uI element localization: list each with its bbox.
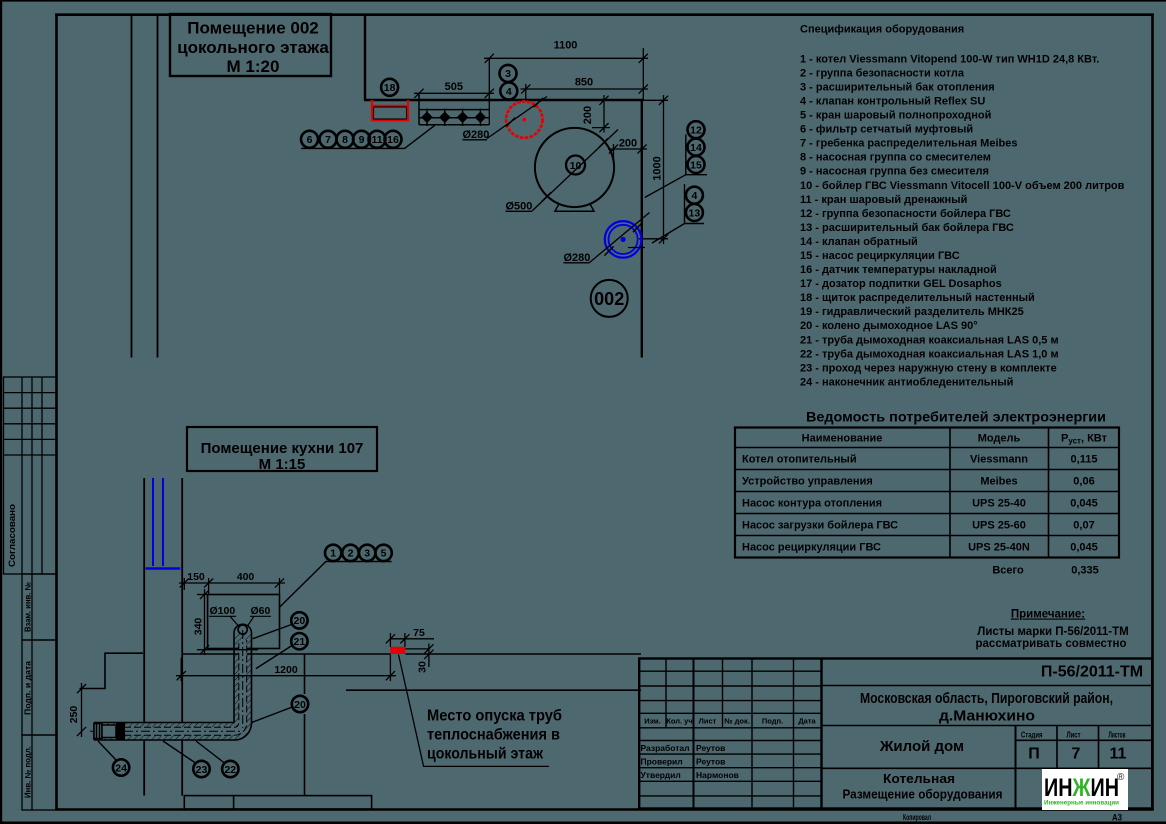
svg-text:П: П bbox=[1028, 746, 1040, 763]
svg-text:9: 9 bbox=[359, 134, 365, 146]
position group 12 14 15 bbox=[645, 121, 707, 197]
svg-text:22 - труба дымоходная коаксиал: 22 - труба дымоходная коаксиальная LAS 1… bbox=[800, 348, 1059, 360]
wall sleeve (poz.23) bbox=[116, 722, 125, 740]
svg-text:21 - труба дымоходная коаксиал: 21 - труба дымоходная коаксиальная LAS 0… bbox=[800, 334, 1059, 346]
svg-text:13 - расширительный бак бойлер: 13 - расширительный бак бойлера ГВС bbox=[800, 222, 1014, 234]
room number 002 bubble bbox=[591, 280, 628, 317]
leader 1235 bbox=[280, 562, 392, 608]
inner pipe clear band bbox=[94, 640, 247, 735]
svg-text:2: 2 bbox=[348, 548, 354, 560]
svg-text:Насос рециркуляции ГВС: Насос рециркуляции ГВС bbox=[742, 542, 881, 554]
svg-text:5: 5 bbox=[381, 548, 387, 560]
dimension 150 and 400 bbox=[179, 578, 285, 595]
sheet top edge bbox=[0, 0, 1166, 2]
svg-text:Наименование: Наименование bbox=[802, 433, 883, 445]
signature rows bbox=[641, 743, 739, 780]
svg-text:11: 11 bbox=[1110, 746, 1127, 763]
svg-text:14: 14 bbox=[690, 142, 702, 154]
svg-text:0,045: 0,045 bbox=[1070, 498, 1098, 510]
consumers table rows bbox=[742, 454, 1098, 554]
svg-text:Котельная: Котельная bbox=[883, 771, 955, 786]
svg-text:Размещение оборудования: Размещение оборудования bbox=[843, 787, 1003, 802]
svg-text:Нармонов: Нармонов bbox=[696, 770, 739, 780]
svg-text:Ø60: Ø60 bbox=[251, 605, 271, 617]
stage values bbox=[1028, 746, 1126, 763]
svg-text:16: 16 bbox=[387, 134, 399, 146]
svg-text:№ док.: № док. bbox=[724, 717, 750, 726]
position circle 21 bbox=[291, 633, 307, 649]
svg-text:0,115: 0,115 bbox=[1071, 454, 1098, 466]
svg-text:23: 23 bbox=[196, 764, 208, 776]
svg-text:Meibes: Meibes bbox=[980, 476, 1017, 488]
svg-text:Инженерные инновации: Инженерные инновации bbox=[1044, 800, 1119, 807]
flue tip (poz.24) bbox=[94, 724, 116, 739]
wall vertical x365 bbox=[364, 14, 366, 101]
svg-text:11 - кран шаровый дренажный: 11 - кран шаровый дренажный bbox=[800, 194, 967, 206]
left margin approval table bbox=[4, 377, 57, 574]
revision header labels bbox=[644, 717, 816, 726]
manifold strip (grebenka) bbox=[419, 93, 489, 125]
svg-text:М 1:20: М 1:20 bbox=[227, 57, 280, 76]
dimension 75 bbox=[386, 633, 434, 647]
kitchen left wall step bbox=[80, 653, 144, 688]
svg-text:Дата: Дата bbox=[798, 717, 816, 726]
flue elbow top (dome) bbox=[234, 624, 252, 634]
svg-text:20: 20 bbox=[294, 615, 306, 627]
svg-text:Устройство управления: Устройство управления bbox=[742, 476, 873, 488]
boiler tank (poz.10) circle bbox=[506, 128, 619, 213]
svg-text:1200: 1200 bbox=[274, 664, 298, 676]
svg-text:Изм.: Изм. bbox=[644, 717, 661, 726]
kitchen chimney wall lines bbox=[144, 478, 182, 796]
partition line x131.5 bbox=[131, 15, 133, 358]
manifold pump dots bbox=[421, 109, 486, 127]
svg-text:UPS 25-60: UPS 25-60 bbox=[972, 520, 1026, 532]
dimension 850 bbox=[521, 84, 649, 100]
svg-text:Котел отопительный: Котел отопительный bbox=[742, 454, 857, 466]
position circle 20 lower bbox=[292, 696, 308, 712]
svg-text:30: 30 bbox=[417, 661, 429, 673]
svg-text:15 - насос рециркуляции ГВС: 15 - насос рециркуляции ГВС bbox=[800, 250, 960, 262]
svg-text:21: 21 bbox=[294, 636, 306, 648]
logo INZHIN bbox=[1042, 769, 1128, 810]
svg-text:850: 850 bbox=[575, 77, 593, 89]
dimension 250 bbox=[77, 683, 86, 737]
wall boiler outline bbox=[208, 595, 280, 649]
sheet name bbox=[843, 771, 1003, 802]
left margin cells bbox=[22, 574, 57, 810]
svg-text:Лист: Лист bbox=[699, 717, 717, 726]
partition line x157.5 bbox=[157, 15, 159, 358]
svg-text:0,045: 0,045 bbox=[1070, 542, 1098, 554]
svg-text:18 - щиток распределительный н: 18 - щиток распределительный настенный bbox=[800, 292, 1035, 304]
svg-text:7 - гребенка распределительная: 7 - гребенка распределительная Meibes bbox=[800, 138, 1017, 150]
svg-text:14 - клапан обратный: 14 - клапан обратный bbox=[800, 236, 918, 248]
svg-text:Листов: Листов bbox=[1109, 730, 1126, 740]
leader 22 bbox=[196, 741, 225, 763]
svg-text:7: 7 bbox=[325, 134, 331, 146]
pipe inner walls dashed bbox=[94, 640, 239, 727]
svg-text:®: ® bbox=[1117, 772, 1125, 783]
svg-text:4: 4 bbox=[506, 86, 512, 98]
leader 24 bbox=[98, 741, 117, 761]
svg-text:цокольный этаж: цокольный этаж bbox=[427, 746, 544, 763]
svg-text:Ø100: Ø100 bbox=[210, 605, 236, 617]
position group 4 13 bbox=[652, 184, 704, 243]
svg-text:цокольного этажа: цокольного этажа bbox=[177, 38, 329, 57]
svg-text:3: 3 bbox=[364, 548, 370, 560]
leader 20 upper bbox=[253, 625, 292, 639]
pipe outer walls bbox=[94, 633, 252, 740]
svg-text:5 - кран шаровый полнопроходно: 5 - кран шаровый полнопроходной bbox=[800, 110, 991, 122]
svg-text:рассматривать совместно: рассматривать совместно bbox=[976, 638, 1127, 650]
svg-text:ИНЖИН: ИНЖИН bbox=[1044, 774, 1119, 802]
position circle 24 bbox=[113, 759, 129, 775]
svg-text:20 - колено дымоходное LAS 90°: 20 - колено дымоходное LAS 90° bbox=[800, 320, 978, 332]
svg-text:Листы марки П-56/2011-ТМ: Листы марки П-56/2011-ТМ bbox=[977, 626, 1128, 638]
svg-text:10 - бойлер ГВС Viessmann Vito: 10 - бойлер ГВС Viessmann Vitocell 100-V… bbox=[800, 180, 1125, 192]
svg-text:Всего: Всего bbox=[992, 565, 1024, 577]
leader 23 bbox=[163, 741, 196, 763]
svg-text:UPS 25-40: UPS 25-40 bbox=[972, 498, 1026, 510]
svg-text:400: 400 bbox=[237, 571, 255, 583]
svg-text:23 - проход через наружную сте: 23 - проход через наружную стену в компл… bbox=[800, 362, 1057, 374]
svg-text:Место опуска труб: Место опуска труб bbox=[427, 708, 562, 725]
svg-text:22: 22 bbox=[224, 764, 236, 776]
svg-text:0,335: 0,335 bbox=[1071, 565, 1099, 577]
consumers table header bbox=[802, 433, 1108, 446]
svg-text:Кол. уч: Кол. уч bbox=[666, 717, 692, 726]
svg-text:Московская область, Пироговски: Московская область, Пироговский район, bbox=[860, 690, 1113, 707]
svg-text:7: 7 bbox=[1072, 746, 1081, 763]
svg-text:200: 200 bbox=[582, 106, 594, 124]
title block right lines bbox=[822, 686, 1153, 809]
svg-text:Viessmann: Viessmann bbox=[970, 454, 1028, 466]
dimension 200 horizontal bbox=[608, 144, 647, 160]
leader 21 bbox=[256, 646, 292, 669]
pipe centerlines bbox=[90, 730, 240, 732]
title block outer bbox=[639, 659, 1152, 809]
svg-text:3: 3 bbox=[505, 68, 511, 80]
DHW expansion vessel (blue circle poz.13) bbox=[564, 213, 650, 265]
totals row bbox=[992, 565, 1098, 577]
svg-text:1100: 1100 bbox=[554, 40, 578, 52]
kitchen title box bbox=[187, 427, 377, 473]
electrical board (poz.18) red rectangle bbox=[371, 100, 409, 120]
svg-text:13: 13 bbox=[689, 207, 701, 219]
wall horizontal y100 bbox=[364, 99, 643, 101]
svg-text:Проверил: Проверил bbox=[641, 757, 683, 767]
svg-text:Помещение кухни 107: Помещение кухни 107 bbox=[201, 440, 364, 457]
svg-text:8 - насосная группа со смесите: 8 - насосная группа со смесителем bbox=[800, 152, 991, 164]
stage headers bbox=[1021, 730, 1126, 740]
dimension 1100 bbox=[484, 48, 648, 100]
svg-text:Насос загрузки бойлера ГВС: Насос загрузки бойлера ГВС bbox=[742, 520, 898, 532]
svg-text:24 - наконечник антиобледените: 24 - наконечник антиобледенительный bbox=[800, 377, 1013, 389]
svg-text:Реутов: Реутов bbox=[696, 743, 725, 753]
svg-text:15: 15 bbox=[690, 159, 702, 171]
dimension 1200 bbox=[176, 655, 396, 682]
svg-text:75: 75 bbox=[413, 627, 425, 639]
svg-text:Жилой дом: Жилой дом bbox=[879, 738, 964, 755]
svg-text:Инв. № подл.: Инв. № подл. bbox=[24, 746, 33, 798]
svg-text:Утвердил: Утвердил bbox=[641, 770, 681, 780]
position circle 23 bbox=[193, 761, 209, 777]
coaxial flue pipe (elbow run) bbox=[90, 624, 252, 740]
svg-text:Копировал: Копировал bbox=[903, 812, 931, 822]
svg-text:1: 1 bbox=[330, 548, 336, 560]
dimension 1000 bbox=[639, 95, 668, 244]
red drop mark bbox=[390, 647, 405, 654]
leader to note bbox=[399, 655, 550, 767]
sheet left edge bbox=[0, 0, 2, 824]
kitchen long wall lines bbox=[182, 654, 641, 796]
svg-text:Подп. и дата: Подп. и дата bbox=[24, 660, 33, 715]
svg-text:Подп.: Подп. bbox=[762, 717, 783, 726]
svg-text:10: 10 bbox=[570, 160, 582, 172]
svg-text:6: 6 bbox=[307, 134, 313, 146]
svg-text:Согласовано: Согласовано bbox=[7, 503, 17, 567]
object name bbox=[860, 690, 1113, 725]
svg-text:1000: 1000 bbox=[652, 156, 664, 180]
svg-text:2 - группа безопасности котла: 2 - группа безопасности котла bbox=[800, 67, 965, 79]
svg-text:19 - гидравлический разделител: 19 - гидравлический разделитель МНК25 bbox=[800, 306, 1024, 318]
svg-text:1 - котел Viessmann Vitopend 1: 1 - котел Viessmann Vitopend 100-W тип W… bbox=[800, 53, 1099, 65]
dimension 340 bbox=[197, 589, 258, 655]
position circle 20 upper bbox=[291, 612, 307, 628]
position circle 18 bbox=[381, 79, 398, 96]
svg-text:теплоснабжения в: теплоснабжения в bbox=[427, 727, 560, 744]
note primechanie bbox=[976, 609, 1129, 651]
svg-text:8: 8 bbox=[342, 134, 348, 146]
position circles 1 2 3 5 bbox=[325, 545, 341, 561]
svg-text:Спецификация оборудования: Спецификация оборудования bbox=[800, 24, 964, 36]
svg-text:4 - клапан контрольный Reflex: 4 - клапан контрольный Reflex SU bbox=[800, 96, 985, 108]
expansion vessel (red circle poz.3) bbox=[463, 97, 548, 142]
title box room 002 bbox=[170, 14, 331, 76]
position circles 6 7 8 9 11 16 row bbox=[301, 131, 318, 148]
svg-text:Насос контура отопления: Насос контура отопления bbox=[742, 498, 882, 510]
leader for row circles bbox=[301, 125, 435, 148]
svg-text:А3: А3 bbox=[1112, 813, 1122, 823]
svg-text:6 - фильтр сетчатый муфтовый: 6 - фильтр сетчатый муфтовый bbox=[800, 124, 973, 136]
revision table lines bbox=[639, 659, 821, 809]
leader 20 lower bbox=[251, 707, 292, 723]
svg-text:Помещение 002: Помещение 002 bbox=[187, 19, 318, 38]
svg-text:0,07: 0,07 bbox=[1073, 520, 1094, 532]
blue flue lines bbox=[146, 478, 181, 569]
svg-text:Разработал: Разработал bbox=[641, 743, 690, 753]
svg-text:24: 24 bbox=[115, 762, 127, 774]
svg-text:250: 250 bbox=[68, 706, 80, 724]
note text Mesto opuska bbox=[427, 708, 562, 763]
svg-text:Ведомость потребителей электро: Ведомость потребителей электроэнергии bbox=[806, 410, 1106, 425]
svg-text:18: 18 bbox=[384, 82, 396, 94]
specification items bbox=[800, 53, 1125, 388]
svg-text:200: 200 bbox=[619, 138, 637, 150]
svg-text:М 1:15: М 1:15 bbox=[259, 456, 306, 473]
position circle 22 bbox=[222, 761, 238, 777]
svg-text:Взам. инв. №: Взам. инв. № bbox=[24, 582, 33, 632]
svg-text:Примечание:: Примечание: bbox=[1011, 609, 1085, 621]
svg-text:д.Манюхино: д.Манюхино bbox=[939, 708, 1035, 725]
svg-text:Реутов: Реутов bbox=[696, 757, 725, 767]
svg-text:150: 150 bbox=[187, 571, 205, 583]
consumers table grid bbox=[735, 428, 1119, 558]
svg-text:505: 505 bbox=[445, 81, 463, 93]
label D100 bbox=[209, 605, 239, 626]
svg-text:12: 12 bbox=[690, 125, 702, 137]
svg-text:Руст, КВт: Руст, КВт bbox=[1061, 433, 1108, 446]
svg-text:П-56/2011-ТМ: П-56/2011-ТМ bbox=[1041, 664, 1143, 681]
svg-text:Лист: Лист bbox=[1067, 730, 1081, 740]
svg-text:0,06: 0,06 bbox=[1073, 476, 1094, 488]
dimension 30 bbox=[406, 644, 434, 668]
wall vertical x641.5 bbox=[641, 99, 643, 358]
position circles 3 4 bbox=[500, 65, 517, 82]
sheet bottom edge bbox=[0, 822, 1166, 824]
svg-text:12 - группа безопасности бойле: 12 - группа безопасности бойлера ГВС bbox=[800, 208, 1011, 220]
svg-text:9 - насосная группа без смесит: 9 - насосная группа без смесителя bbox=[800, 166, 989, 178]
svg-text:3 - расширительный бак отоплен: 3 - расширительный бак отопления bbox=[800, 81, 995, 93]
svg-text:17 - дозатор подпитки GEL Dosa: 17 - дозатор подпитки GEL Dosaphos bbox=[800, 278, 1002, 290]
svg-text:UPS 25-40N: UPS 25-40N bbox=[968, 542, 1030, 554]
dimension 505 bbox=[414, 58, 494, 125]
svg-text:4: 4 bbox=[691, 190, 697, 202]
svg-text:20: 20 bbox=[294, 699, 306, 711]
svg-text:340: 340 bbox=[193, 618, 205, 636]
svg-text:002: 002 bbox=[594, 289, 624, 309]
svg-text:Модель: Модель bbox=[978, 433, 1021, 445]
label D60 bbox=[248, 605, 272, 626]
dimension 200 vertical bbox=[592, 95, 610, 133]
svg-text:11: 11 bbox=[371, 134, 382, 146]
svg-text:16 - датчик температуры наклад: 16 - датчик температуры накладной bbox=[800, 264, 997, 276]
kitchen plinth bbox=[184, 796, 371, 810]
svg-text:Стадия: Стадия bbox=[1021, 730, 1043, 740]
